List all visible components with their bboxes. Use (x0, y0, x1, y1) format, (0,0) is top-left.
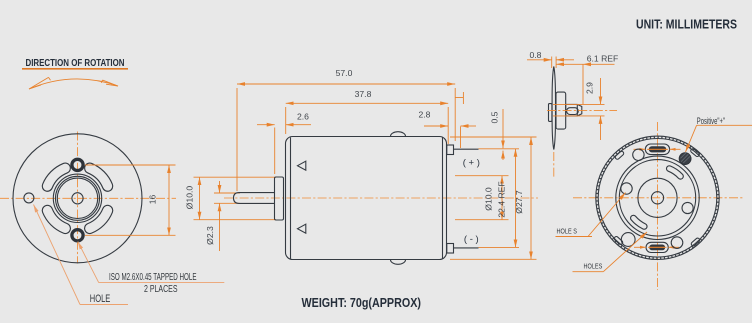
svg-text:( - ): ( - ) (464, 234, 479, 245)
side view terminal bottom bracket (447, 244, 454, 254)
svg-text:2.8: 2.8 (419, 110, 431, 120)
leader holes (573, 232, 648, 272)
rear arc slot NE (669, 169, 680, 177)
svg-text:6.1 REF: 6.1 REF (587, 54, 619, 64)
svg-text:2 PLACES: 2 PLACES (144, 284, 178, 295)
side view centerline (224, 197, 538, 199)
dim front O10.0 extension lines (194, 177, 277, 220)
direction of rotation underline (22, 68, 128, 70)
front view side hole (24, 193, 34, 203)
dim 0.8 arrow lines (527, 59, 574, 61)
rear view outer rim (596, 136, 719, 259)
rear view boss circle (638, 178, 677, 217)
svg-text:57.0: 57.0 (336, 68, 353, 78)
svg-text:0.8: 0.8 (530, 50, 542, 60)
rear arc slot SW (633, 218, 644, 226)
front view outer circle (13, 134, 142, 263)
dim 22.4 REF extension lines (479, 149, 520, 248)
dim 2.8 extension line (460, 127, 462, 149)
front view tapped hole bottom (72, 230, 83, 241)
dim 57.0 line (237, 83, 455, 85)
terminal detail blade (566, 104, 582, 116)
side view shaft (234, 193, 276, 204)
svg-text:DIRECTION OF ROTATION: DIRECTION OF ROTATION (26, 58, 125, 69)
front view kidney slot SE (90, 211, 108, 229)
svg-text:HOLE S: HOLE S (557, 229, 578, 236)
dim 6.1 REF extension line (582, 64, 584, 104)
side view terminal top bracket (447, 145, 454, 155)
svg-text:HOLE: HOLE (90, 293, 111, 305)
dim 37.8 line (286, 102, 449, 104)
rear positive marker (679, 153, 691, 165)
front view kidney slot NW (47, 168, 65, 186)
rear rim slot lower left (614, 236, 624, 246)
dim 2.9 extension lines (553, 104, 605, 116)
front view: horizontal centerline (0, 197, 176, 199)
dim 2.6 extension line (274, 128, 276, 175)
svg-text:Ø27.7: Ø27.7 (514, 190, 524, 214)
rear rim slot lower right (690, 237, 700, 246)
dim 0.8 extension lines (552, 57, 556, 69)
rear hole lower right (671, 237, 683, 249)
dim right O10.0 extension lines (455, 176, 509, 220)
dim 0.5 arrow lines (502, 109, 504, 160)
side view body (286, 137, 447, 260)
front view kidney slot NE (90, 168, 108, 186)
rear view vertical centerline (657, 122, 659, 290)
leader hole s (556, 193, 626, 237)
dim 6.1 REF arrow lines (556, 63, 614, 65)
dim 37.8 extension lines (286, 107, 449, 144)
dim 2.6 arrow lines (257, 124, 311, 126)
rear hole lower left (621, 233, 635, 247)
side view vent triangle bottom (298, 224, 306, 233)
rear view horizontal centerline (573, 197, 743, 199)
terminal detail bearing boss (549, 104, 552, 122)
rear view inner circle (616, 156, 699, 239)
svg-text:UNIT: MILLIMETERS: UNIT: MILLIMETERS (636, 16, 737, 31)
rear terminal top tick (634, 148, 681, 150)
dim O27.7 line (530, 137, 532, 259)
front view shaft circle (72, 193, 83, 204)
dim O2.3 arrow lines (219, 181, 221, 251)
dim 16 extension lines (85, 165, 176, 235)
front view: vertical centerline (77, 132, 79, 264)
rotation curved arrow (29, 77, 118, 89)
rear terminal top (645, 144, 669, 155)
rear rim slot upper left (615, 151, 625, 161)
side view vent triangle top (298, 161, 306, 170)
side view body front lip (290, 138, 292, 259)
svg-text:2.9: 2.9 (585, 82, 595, 94)
leader positive (686, 125, 752, 152)
dim 2.8 arrow lines (424, 125, 476, 127)
terminal detail blade centerline (547, 110, 617, 112)
side view top bump (391, 132, 406, 137)
leader hole (34, 205, 129, 305)
terminal detail blade slot (567, 108, 579, 115)
terminal detail end plate (552, 67, 555, 150)
svg-text:16: 16 (148, 195, 158, 205)
svg-text:HOLES: HOLES (584, 263, 603, 270)
rear hole upper left (633, 149, 644, 160)
dim 16 line (168, 165, 170, 235)
dim O2.3 extension lines (214, 193, 240, 203)
side view bottom bump (391, 260, 406, 265)
terminal detail holder block (556, 92, 566, 129)
svg-text:0.5: 0.5 (490, 111, 500, 123)
front view tapped hole top (72, 159, 83, 170)
dim 57.0 extension lines (237, 88, 455, 191)
front view kidney slot SW (47, 211, 65, 229)
front view boss circles (53, 174, 101, 222)
side view collar (275, 177, 284, 220)
rear terminal bottom tick (634, 246, 679, 248)
svg-text:2.6: 2.6 (297, 112, 309, 122)
svg-text:( + ): ( + ) (463, 157, 480, 168)
svg-text:WEIGHT: 70g(APPROX): WEIGHT: 70g(APPROX) (302, 295, 422, 310)
leader tapped hole (78, 242, 225, 283)
svg-text:Ø10.0: Ø10.0 (185, 186, 195, 210)
svg-text:37.8: 37.8 (355, 89, 372, 99)
svg-text:Ø2.3: Ø2.3 (205, 226, 215, 245)
side view terminal top blade (454, 148, 479, 150)
rear view mid circle (619, 160, 695, 236)
dim 2.9 arrow lines (600, 78, 602, 140)
dim front O10.0 line (199, 177, 201, 220)
rear rim slot upper right (690, 148, 700, 157)
dim aux tick right (455, 92, 463, 104)
svg-text:Ø10.0: Ø10.0 (484, 187, 494, 211)
rear hole right (682, 202, 693, 213)
rear terminal bottom (646, 242, 668, 252)
dim O27.7 extension lines (450, 137, 537, 259)
side view end cap seam (442, 138, 444, 259)
terminal detail centerline below (553, 152, 555, 177)
svg-text:22.4 REF: 22.4 REF (497, 181, 507, 217)
side view terminal bottom blade (454, 247, 479, 249)
dim 22.4 REF line (515, 149, 517, 248)
rear hole mid left (621, 183, 632, 194)
dim right O10.0 line (501, 176, 503, 220)
rear view center hole (651, 192, 663, 204)
svg-text:Positive"+": Positive"+" (697, 116, 725, 126)
svg-text:ISO M2.6X0.45 TAPPED HOLE: ISO M2.6X0.45 TAPPED HOLE (109, 272, 197, 283)
